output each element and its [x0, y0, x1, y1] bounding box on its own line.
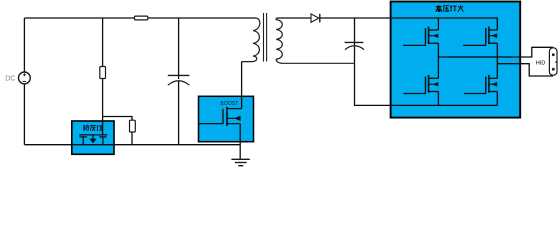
wire: top rail from DC+ to transformer primary — [24, 17, 256, 19]
transformer T1 primary winding — [242, 18, 260, 62]
MOSFET Q3 (H-bridge bottom-left) — [403, 75, 438, 94]
resistor R2 (vertical) — [130, 120, 136, 132]
block box: BOOST converter module — [199, 96, 254, 141]
wire: left rail upper (DC+ to source) — [23, 18, 25, 72]
label 防反接 — [84, 125, 103, 131]
MOSFET Q1 (H-bridge top-left) — [403, 27, 438, 46]
svg-text:DC: DC — [5, 76, 15, 83]
wire: transformer primary bottom to BOOST drain — [241, 62, 243, 109]
MOSFET Q4 (H-bridge bottom-right) — [464, 75, 497, 94]
capacitor C2 (secondary) — [345, 42, 364, 49]
wire: left half-bridge midpoint (Q1 source to Q3 drain) — [437, 43, 439, 78]
wire: R2 bottom to ground rail — [131, 132, 133, 145]
wire: diode cathode to H-bridge top rail, down to Q2 drain — [320, 18, 497, 30]
DC source V1 — [19, 72, 31, 84]
label 高压打火 — [436, 5, 464, 12]
svg-text:HID: HID — [536, 61, 546, 67]
reverse-protection MOSFET Q5 (in 防反接 box) — [79, 135, 107, 145]
wire: branch down to resistor R1 — [102, 18, 104, 67]
wire: branch to resistor R2 — [103, 117, 132, 121]
wire: C2 bottom / secondary return to H-bridge bottom rail — [355, 46, 498, 105]
capacitor C1 (polarized, input filter) — [168, 75, 190, 85]
block box: anti-reverse (防反接) module — [72, 121, 114, 154]
MOSFET Q2 (H-bridge top-right) — [463, 27, 497, 46]
wire: Q4 source to bottom internal rail — [496, 92, 498, 106]
block box: H-bridge ignition (高压打火) module — [391, 2, 521, 118]
HID lamp — [549, 48, 557, 75]
ground — [231, 159, 249, 165]
transformer T1 secondary winding — [276, 18, 354, 63]
wire: left rail lower (source to bottom rail) — [23, 84, 25, 145]
resistor R3 (series, top rail) — [135, 16, 148, 20]
diode D1 — [311, 14, 320, 23]
wire: top rail down to capacitor C1 — [178, 18, 180, 79]
wire: bottom ground rail — [24, 144, 240, 146]
wire: BOOST source down to ground symbol — [239, 124, 241, 159]
wire: Q3 source to bottom internal rail — [437, 92, 439, 106]
wire: secondary top to diode anode — [278, 17, 312, 19]
wire: right midpoint output to HID lamp bottom — [497, 64, 553, 76]
resistor R1 (vertical) — [100, 67, 106, 79]
wire: left midpoint output to HID lamp top — [438, 47, 553, 57]
svg-text:BOOST: BOOST — [220, 101, 238, 107]
wire: top rail down to Q1 drain — [437, 18, 439, 30]
wire: C2 top connection — [354, 18, 356, 45]
wire: C1 bottom to ground rail — [178, 81, 180, 145]
transformer T1 core — [264, 13, 267, 62]
MOSFET Q6 (BOOST switch) — [199, 107, 242, 126]
wire: R1 to gate bar of reverse-protection MOSFET — [102, 79, 104, 136]
wire: right half-bridge midpoint (Q2 source to Q4 drain) — [496, 43, 498, 78]
